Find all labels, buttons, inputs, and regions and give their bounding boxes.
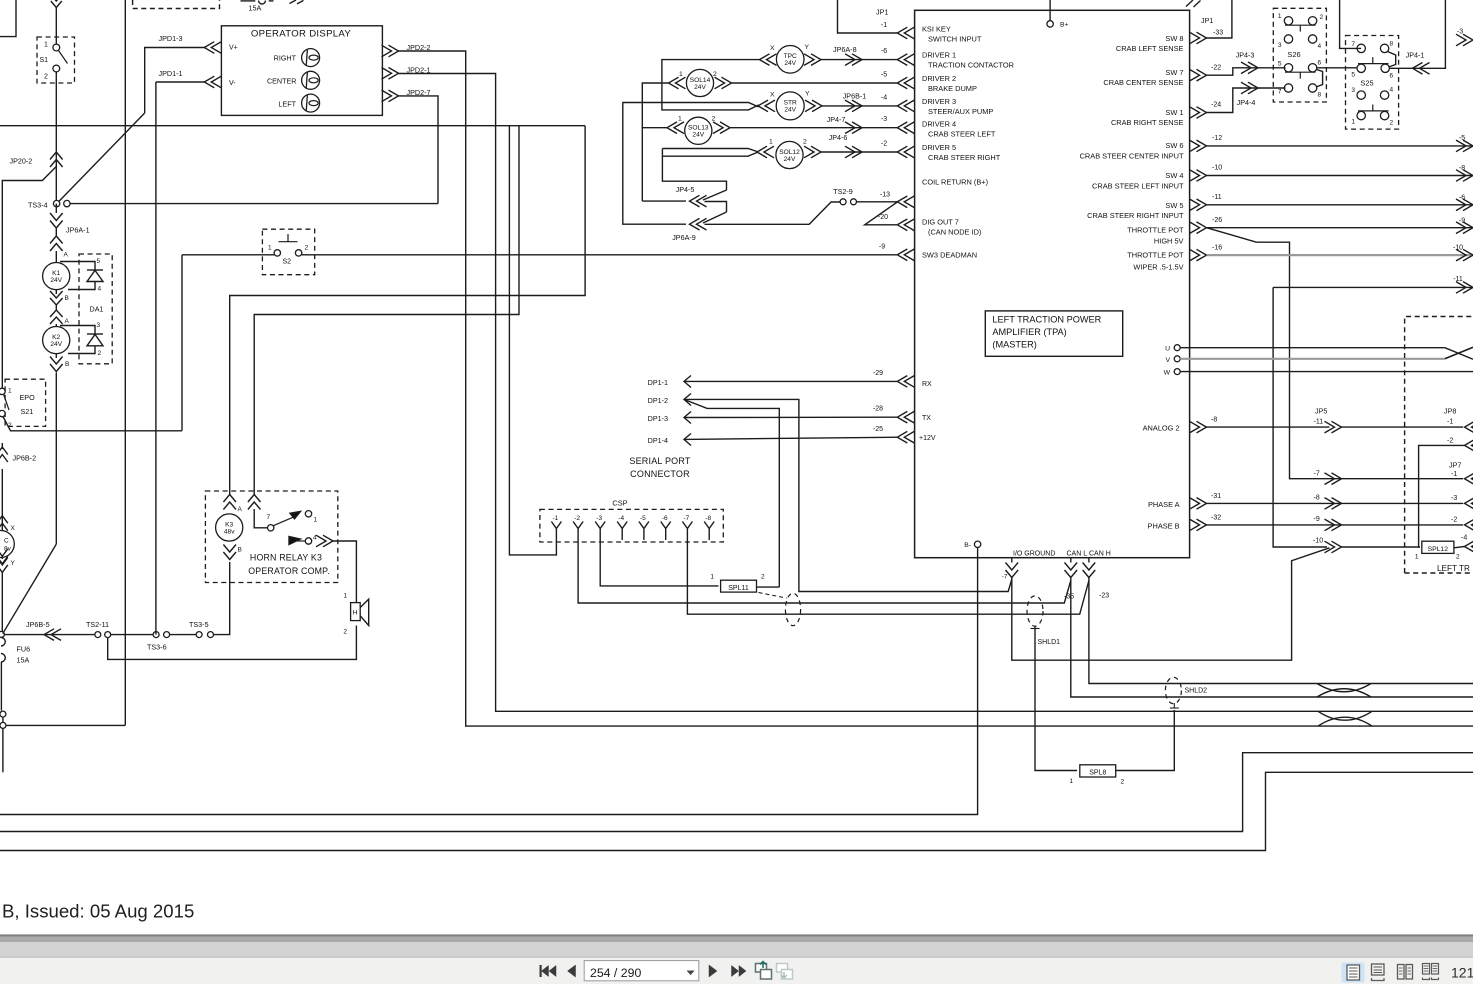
wire SOL12 to block bbox=[821, 151, 897, 153]
wire S26-6 to S25-5 bbox=[1317, 67, 1357, 69]
svg-text:SOL14: SOL14 bbox=[690, 77, 711, 84]
svg-text:+12V: +12V bbox=[919, 435, 936, 442]
svg-text:24V: 24V bbox=[784, 156, 796, 163]
svg-text:1: 1 bbox=[8, 388, 12, 395]
svg-text:2: 2 bbox=[1121, 779, 1125, 786]
svg-text:Y: Y bbox=[11, 560, 16, 567]
connector JP1-1 chevrons bbox=[897, 27, 914, 39]
wire DP1-3 TX bbox=[684, 416, 897, 418]
connector JPD1-1 chevrons bbox=[204, 76, 221, 88]
svg-text:JPD1-1: JPD1-1 bbox=[159, 69, 183, 78]
svg-text:JP5: JP5 bbox=[1315, 407, 1327, 416]
svg-text:1: 1 bbox=[1278, 13, 1282, 20]
svg-text:TX: TX bbox=[922, 415, 931, 422]
svg-text:-1: -1 bbox=[881, 22, 887, 29]
svg-text:1: 1 bbox=[679, 71, 683, 78]
switch S25 pins 3-4 bbox=[1357, 91, 1365, 99]
svg-text:DP1-1: DP1-1 bbox=[648, 378, 668, 387]
wire S26 6 to 8 jog bbox=[1316, 70, 1323, 88]
connector DP1-4 arrow bbox=[684, 434, 691, 446]
svg-text:TS3-5: TS3-5 bbox=[189, 620, 209, 629]
button next page bbox=[709, 965, 717, 977]
svg-text:CRAB LEFT SENSE: CRAB LEFT SENSE bbox=[1116, 44, 1184, 53]
svg-text:SPL8: SPL8 bbox=[1089, 770, 1106, 777]
svg-text:-4: -4 bbox=[618, 515, 624, 522]
shield oval SHLD2 bbox=[1165, 677, 1181, 703]
connector -26 chevrons bbox=[1190, 222, 1207, 234]
svg-text:121: 121 bbox=[1451, 965, 1473, 981]
wire SW8 up bbox=[1207, 0, 1232, 38]
svg-text:5: 5 bbox=[1351, 72, 1355, 79]
svg-text:JP20-2: JP20-2 bbox=[10, 157, 33, 166]
wire S25-7 feed from top bbox=[1340, 0, 1362, 48]
connector -11 right edge chevrons bbox=[1456, 282, 1473, 294]
icon two page view bbox=[1398, 965, 1405, 980]
svg-text:B: B bbox=[238, 547, 242, 554]
wire K3-A feed bbox=[230, 126, 585, 495]
svg-text:WIPER .5-1.5V: WIPER .5-1.5V bbox=[1133, 263, 1183, 272]
svg-text:JP4-5: JP4-5 bbox=[676, 185, 695, 194]
wire -11 row bbox=[1273, 286, 1473, 288]
svg-text:PHASE B: PHASE B bbox=[1148, 521, 1180, 530]
connector SW7 chevrons bbox=[1190, 69, 1207, 81]
svg-text:5: 5 bbox=[1278, 61, 1282, 68]
connector DP1-1 arrow bbox=[684, 376, 691, 388]
wire FU6 down bbox=[0, 662, 2, 711]
connector SW6 chevrons bbox=[1190, 140, 1207, 152]
svg-text:JP7: JP7 bbox=[1449, 461, 1461, 470]
connector -13 block chevrons bbox=[897, 196, 914, 208]
svg-text:2: 2 bbox=[1320, 14, 1324, 21]
connector JP8-1 right edge chevrons bbox=[1465, 421, 1473, 433]
wire CAN H down bbox=[1089, 578, 1473, 684]
svg-text:THROTTLE POT: THROTTLE POT bbox=[1127, 225, 1184, 234]
button previous view icon bbox=[756, 964, 767, 973]
svg-text:24V: 24V bbox=[784, 60, 796, 67]
switch S26 dashed box bbox=[1273, 8, 1326, 102]
svg-text:254 / 290: 254 / 290 bbox=[590, 966, 641, 980]
wire SOL12 left lower bbox=[662, 153, 757, 157]
connector DP1-3 arrow bbox=[684, 412, 691, 424]
connector JP6B-2 chevrons bbox=[1, 443, 3, 449]
svg-text:PHASE A: PHASE A bbox=[1148, 500, 1180, 509]
svg-text:(CAN NODE ID): (CAN NODE ID) bbox=[928, 228, 981, 237]
node TS2-11 bbox=[95, 632, 101, 638]
svg-text:DP1-3: DP1-3 bbox=[648, 414, 668, 423]
wire S2 left bbox=[182, 254, 274, 256]
svg-text:-10: -10 bbox=[1313, 538, 1323, 545]
diode DA1-a bbox=[87, 269, 103, 271]
svg-text:6: 6 bbox=[1318, 60, 1322, 67]
connector -5 right edge chevrons bbox=[1456, 140, 1473, 152]
svg-text:DRIVER 3: DRIVER 3 bbox=[922, 97, 956, 106]
wire -11 riser to -10 JP5 bbox=[1273, 287, 1327, 547]
shield SHLD1 stem bbox=[1034, 626, 1036, 632]
svg-text:RX: RX bbox=[922, 381, 932, 388]
svg-text:JP6A-8: JP6A-8 bbox=[833, 45, 857, 54]
chevron fragment top bbox=[290, 0, 304, 4]
wire JP5 to JP8 bbox=[1342, 426, 1464, 428]
connector CAN H chevrons bbox=[1083, 563, 1096, 578]
svg-text:-9: -9 bbox=[879, 244, 885, 251]
svg-text:JP4-3: JP4-3 bbox=[1236, 51, 1255, 60]
connector -16 chevrons bbox=[1190, 249, 1207, 261]
svg-text:2: 2 bbox=[761, 574, 765, 581]
connector CAN L chevrons bbox=[1065, 563, 1078, 578]
svg-text:X: X bbox=[11, 525, 16, 532]
wire EPO-2 to S2 line bbox=[3, 417, 182, 431]
svg-text:-1: -1 bbox=[553, 515, 559, 522]
svg-text:4: 4 bbox=[98, 286, 102, 293]
svg-text:24V: 24V bbox=[784, 107, 796, 114]
svg-text:2: 2 bbox=[343, 629, 347, 636]
connector pair bottom-left bbox=[0, 711, 6, 717]
svg-text:3: 3 bbox=[1351, 87, 1355, 94]
svg-text:-1: -1 bbox=[1447, 419, 1453, 426]
wire DP1-2 straight bbox=[684, 399, 1012, 591]
connector driver4 block chevrons bbox=[897, 122, 914, 134]
connector -10 right edge chevrons bbox=[1456, 249, 1473, 261]
wire EPO-S2 riser bbox=[181, 255, 183, 431]
svg-text:24V: 24V bbox=[694, 84, 706, 91]
svg-text:DA1: DA1 bbox=[90, 305, 104, 314]
switch S26 pins 1-2 bbox=[1284, 17, 1292, 25]
svg-text:7: 7 bbox=[1351, 41, 1355, 48]
wire B- down to bus bbox=[0, 548, 978, 815]
connector -4 right edge chevrons bbox=[1465, 541, 1473, 553]
connector mate chevrons below JP6A-1 bbox=[50, 236, 63, 251]
connector JP4-3 chevrons bbox=[1241, 62, 1258, 74]
button next view icon bbox=[777, 964, 788, 973]
svg-text:SW 1: SW 1 bbox=[1165, 108, 1183, 117]
svg-text:EPO: EPO bbox=[20, 393, 36, 402]
connector -8 mid chevrons bbox=[1325, 498, 1342, 510]
svg-text:-3: -3 bbox=[596, 515, 602, 522]
wire CAN L down bbox=[1071, 578, 1473, 698]
svg-text:H: H bbox=[353, 610, 358, 617]
wire DP1-1 RX bbox=[684, 380, 897, 382]
svg-text:K2: K2 bbox=[52, 334, 60, 341]
diode DA1-b wires bbox=[60, 326, 95, 335]
wire SOL14 to block bbox=[732, 82, 898, 84]
relay K3 dashed box bbox=[205, 491, 337, 583]
relay K2 bbox=[43, 327, 70, 354]
solenoid SOL14 bbox=[669, 77, 686, 89]
connector driver2 block chevrons bbox=[897, 77, 914, 89]
svg-text:7: 7 bbox=[267, 514, 271, 521]
svg-text:15A: 15A bbox=[17, 656, 30, 665]
wire K2 down to diagonal bbox=[55, 373, 57, 545]
svg-text:-8: -8 bbox=[1314, 495, 1320, 502]
svg-text:STR: STR bbox=[784, 100, 797, 107]
wire -10 to SPL12 bbox=[1342, 546, 1421, 548]
svg-text:-25: -25 bbox=[873, 426, 883, 433]
wire JPD1-1 vertical x=156 bbox=[155, 82, 157, 635]
svg-text:JP6B-2: JP6B-2 bbox=[13, 454, 37, 463]
svg-text:COIL RETURN (B+): COIL RETURN (B+) bbox=[922, 178, 988, 187]
svg-text:-5: -5 bbox=[881, 72, 887, 79]
svg-text:X: X bbox=[770, 45, 775, 52]
connector chevrons MC-X bbox=[0, 516, 8, 531]
svg-text:-7: -7 bbox=[684, 515, 690, 522]
wire JPD2-2 bbox=[399, 51, 1473, 726]
wire SOL14 left bbox=[642, 83, 668, 201]
svg-text:SHLD2: SHLD2 bbox=[1185, 688, 1208, 695]
connector SW1 chevrons bbox=[1190, 107, 1207, 119]
svg-text:48v: 48v bbox=[224, 528, 235, 535]
svg-text:S1: S1 bbox=[40, 57, 49, 64]
wire S25 8 to 6 jog bbox=[1388, 52, 1396, 68]
connector JP20-2 chevrons bbox=[50, 152, 63, 167]
wire PHASE B row bbox=[1207, 524, 1464, 526]
icon two page continuous view bbox=[1423, 964, 1430, 975]
wire JPD2-7 bbox=[399, 96, 439, 204]
svg-text:ANALOG 2: ANALOG 2 bbox=[1143, 423, 1180, 432]
wire V gray bbox=[1180, 358, 1445, 360]
dashed box LEFT TRACTION right bbox=[1405, 317, 1473, 574]
svg-text:A: A bbox=[238, 506, 243, 513]
svg-text:-12: -12 bbox=[1212, 135, 1222, 142]
connector chevrons K3-4 bbox=[316, 535, 333, 547]
wire SW7 to S26-5 bbox=[1207, 68, 1286, 75]
switch EPO S21 dashed box bbox=[5, 379, 46, 426]
svg-text:SOL12: SOL12 bbox=[779, 149, 800, 156]
svg-text:2: 2 bbox=[305, 245, 309, 252]
svg-text:24V: 24V bbox=[50, 277, 62, 284]
svg-text:-26: -26 bbox=[1212, 217, 1222, 224]
svg-text:JP6B-1: JP6B-1 bbox=[843, 92, 867, 101]
svg-text:2: 2 bbox=[1456, 554, 1460, 561]
connector -20 block chevrons bbox=[897, 219, 914, 231]
wire JPD1-1 bbox=[156, 81, 204, 83]
wire JP8-2 to SPL12 bbox=[1419, 445, 1465, 547]
svg-text:1: 1 bbox=[314, 517, 318, 524]
svg-text:B: B bbox=[65, 361, 69, 368]
svg-text:4: 4 bbox=[1318, 43, 1322, 50]
connector JP4-1 chevrons bbox=[1413, 63, 1430, 75]
shield dashed link SPL11 bbox=[759, 593, 787, 599]
wire -7 row to JP7-1 bbox=[1330, 478, 1464, 480]
connector chevrons K3 contact feed bbox=[248, 495, 261, 510]
terminal V bbox=[1174, 356, 1180, 362]
button last page bbox=[732, 966, 739, 977]
wire K3 contact 7 bbox=[254, 509, 267, 528]
svg-text:B+: B+ bbox=[1060, 22, 1069, 29]
svg-text:-10: -10 bbox=[1212, 165, 1222, 172]
contactor coil MC bbox=[0, 531, 14, 558]
svg-text:-1: -1 bbox=[1451, 471, 1457, 478]
svg-text:1: 1 bbox=[343, 593, 347, 600]
connector driver1 block chevrons bbox=[897, 54, 914, 66]
connector JPD2-7 chevrons bbox=[382, 90, 399, 102]
svg-text:STEER/AUX PUMP: STEER/AUX PUMP bbox=[928, 107, 993, 116]
connector JP5-11 chevrons bbox=[1325, 421, 1342, 433]
wire JP20-2 to left edge bbox=[2, 167, 56, 389]
svg-text:-24: -24 bbox=[1211, 102, 1221, 109]
svg-text:OPERATOR COMP.: OPERATOR COMP. bbox=[248, 566, 330, 576]
connector JP6A-9 bbox=[690, 218, 707, 230]
relay K3 coil bbox=[216, 514, 243, 541]
svg-text:CAN H: CAN H bbox=[1089, 551, 1111, 558]
chevron fragment top right of block bbox=[1186, 0, 1201, 7]
wire TS2-11 to speaker return bbox=[108, 626, 357, 660]
wire TS2-9 to block -13 bbox=[857, 201, 898, 203]
solenoid SOL13 bbox=[667, 122, 684, 134]
speaker H bbox=[351, 603, 361, 621]
wire JPD1-3 bbox=[145, 48, 205, 114]
wire SW5 to right edge bbox=[1207, 204, 1473, 206]
svg-text:CRAB STEER RIGHT INPUT: CRAB STEER RIGHT INPUT bbox=[1087, 211, 1184, 220]
wire PHASE A row bbox=[1207, 502, 1464, 504]
fuse circle 15A (clipped) bbox=[259, 1, 266, 5]
connector JP7-1 right edge chevrons bbox=[1465, 473, 1473, 485]
connector PHASEB chevrons bbox=[1190, 519, 1207, 531]
svg-text:JP4-1: JP4-1 bbox=[1406, 51, 1425, 60]
svg-text:A: A bbox=[65, 318, 70, 325]
wire K3-4 to speaker bbox=[333, 541, 356, 602]
wire SPL11-2 to DP1-2 bbox=[757, 586, 780, 588]
wire diagonal K2 line to FU6 junction bbox=[3, 544, 57, 634]
svg-text:SPL12: SPL12 bbox=[1428, 546, 1449, 553]
connector driver3 block chevrons bbox=[897, 100, 914, 112]
wire top-left corner stub bbox=[0, 0, 16, 37]
svg-text:DRIVER 2: DRIVER 2 bbox=[922, 74, 956, 83]
connector +12V block chevrons bbox=[897, 431, 914, 443]
wire S2 right to SW3 deadman bbox=[302, 254, 898, 256]
svg-text:Y: Y bbox=[805, 44, 810, 51]
connector JP4-7 chevrons bbox=[845, 122, 862, 134]
icon single page view bbox=[1342, 963, 1365, 983]
svg-text:-3: -3 bbox=[881, 116, 887, 123]
svg-text:Y: Y bbox=[805, 91, 810, 98]
connector chevrons K3-B bbox=[223, 545, 236, 560]
svg-text:5: 5 bbox=[97, 258, 101, 265]
switch S25 pins 5-6 bbox=[1357, 64, 1365, 72]
svg-text:DRIVER 1: DRIVER 1 bbox=[922, 51, 956, 60]
wire diagonal TS3-4 to JPD1-3 bbox=[59, 113, 145, 202]
svg-text:SWITCH INPUT: SWITCH INPUT bbox=[928, 35, 982, 44]
svg-text:KSI KEY: KSI KEY bbox=[922, 25, 951, 34]
svg-text:U: U bbox=[1165, 346, 1170, 353]
dashed box DA1 bbox=[79, 254, 112, 364]
svg-text:RIGHT: RIGHT bbox=[274, 54, 297, 63]
scrollbar strip bbox=[0, 934, 1473, 936]
svg-text:JP1: JP1 bbox=[876, 8, 888, 17]
svg-text:V+: V+ bbox=[229, 44, 238, 51]
svg-text:CRAB CENTER SENSE: CRAB CENTER SENSE bbox=[1103, 78, 1183, 87]
connector TX block chevrons bbox=[897, 411, 914, 423]
toolbar background bbox=[0, 958, 1473, 984]
svg-text:JP4-4: JP4-4 bbox=[1237, 98, 1256, 107]
svg-text:S21: S21 bbox=[21, 407, 34, 416]
svg-text:15A: 15A bbox=[249, 4, 262, 13]
wire JP6A-1 to K1 bbox=[55, 251, 57, 262]
connector JPD1-3 chevrons bbox=[204, 42, 221, 54]
connector DP1-2 arrow bbox=[684, 394, 691, 406]
switch S25 dashed box bbox=[1346, 36, 1399, 130]
svg-text:JP8: JP8 bbox=[1444, 407, 1456, 416]
connector chevrons K2-B bbox=[55, 354, 57, 358]
svg-text:-3: -3 bbox=[1451, 495, 1457, 502]
connector JPD2-2 chevrons bbox=[382, 45, 399, 57]
wire JPD2-1 bbox=[399, 74, 1473, 712]
wire S25-6 out to JP4-1 bbox=[1390, 0, 1446, 68]
svg-text:TPC: TPC bbox=[784, 53, 797, 60]
svg-text:JP6B-5: JP6B-5 bbox=[26, 620, 50, 629]
svg-text:-2: -2 bbox=[881, 141, 887, 148]
svg-text:1: 1 bbox=[44, 42, 48, 49]
wire CSP-3 to SPL11 bbox=[600, 540, 718, 586]
wire TS3-5 to K3-B riser bbox=[214, 562, 230, 635]
wire long horizontal y=125.7 bbox=[0, 125, 585, 127]
connector JPD2-1 chevrons bbox=[382, 68, 399, 80]
svg-text:DIG OUT 7: DIG OUT 7 bbox=[922, 218, 959, 227]
node TS2-9 bbox=[840, 199, 846, 205]
svg-text:-20: -20 bbox=[878, 214, 888, 221]
wire FU6 connector to riser x=125 bbox=[6, 724, 125, 726]
svg-text:1: 1 bbox=[769, 139, 773, 146]
terminal U bbox=[1174, 345, 1180, 351]
switch S25 pins 7-8 bbox=[1357, 44, 1365, 52]
connector JP8-2 right edge chevrons bbox=[1465, 440, 1473, 452]
diode DA1-a wires bbox=[60, 262, 95, 271]
connector JP6A-1 chevrons bbox=[50, 213, 63, 228]
svg-text:TS3-4: TS3-4 bbox=[28, 200, 48, 209]
svg-text:A: A bbox=[64, 252, 69, 259]
svg-text:-23: -23 bbox=[1099, 593, 1109, 600]
wire JP1 KSI feed bbox=[838, 0, 898, 33]
wire JP6A-9 to TS2-9 bbox=[705, 202, 841, 224]
wire U crossover bbox=[1445, 348, 1473, 360]
wire SW6 to right edge bbox=[1207, 145, 1473, 147]
wire JP6B-5 horn feed bbox=[4, 634, 94, 636]
svg-text:-8: -8 bbox=[1211, 417, 1217, 424]
input page number bbox=[584, 961, 699, 981]
wire JP6B-2 down to MC bbox=[1, 469, 3, 531]
wire SOL13 left bbox=[642, 127, 667, 129]
svg-text:TS2-9: TS2-9 bbox=[833, 187, 853, 196]
svg-text:-6: -6 bbox=[881, 48, 887, 55]
svg-text:3: 3 bbox=[97, 322, 101, 329]
svg-text:-22: -22 bbox=[1211, 65, 1221, 72]
svg-text:LEFT TRACTION POWER: LEFT TRACTION POWER bbox=[992, 314, 1101, 324]
svg-text:-6: -6 bbox=[662, 515, 668, 522]
switch K3 contact 4 bbox=[289, 537, 301, 545]
svg-text:LEFT: LEFT bbox=[278, 99, 296, 108]
svg-text:HORN RELAY K3: HORN RELAY K3 bbox=[250, 553, 322, 563]
connector chevrons K3-A bbox=[223, 495, 236, 510]
fuse FU6 bbox=[1, 638, 5, 663]
splice SPL11 bbox=[721, 580, 757, 592]
svg-text:-33: -33 bbox=[1213, 30, 1223, 37]
svg-text:CONNECTOR: CONNECTOR bbox=[630, 469, 690, 479]
svg-text:K1: K1 bbox=[52, 270, 60, 277]
connector JP6B-5 chevrons bbox=[44, 629, 61, 641]
wire V crossover bbox=[1445, 347, 1473, 359]
connector -3 right edge chevrons bbox=[1456, 34, 1473, 46]
connector JP4-6 chevrons bbox=[845, 146, 862, 158]
shield SHLD2 stem bbox=[1170, 707, 1179, 709]
wire bus y=831.5 bbox=[0, 753, 1473, 832]
node FU6 junction bbox=[0, 631, 4, 637]
switch S2 dashed box bbox=[262, 229, 314, 275]
connector -2 right edge chevrons JP7 bbox=[1465, 519, 1473, 531]
wire SW1 to S26-7 bbox=[1207, 88, 1286, 113]
svg-text:JP6A-9: JP6A-9 bbox=[672, 233, 696, 242]
svg-text:DRIVER 5: DRIVER 5 bbox=[922, 143, 956, 152]
svg-text:CRAB STEER LEFT: CRAB STEER LEFT bbox=[928, 130, 996, 139]
node TS3-6 bbox=[153, 632, 159, 638]
